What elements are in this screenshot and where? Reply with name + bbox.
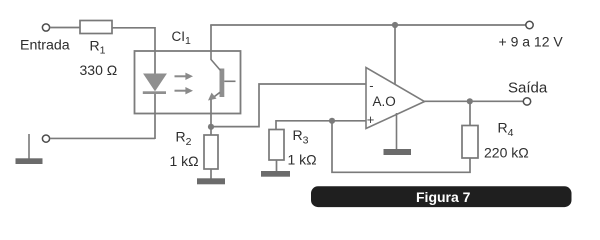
resistor R2 [204,135,218,169]
wire R3 to ground [276,160,278,171]
ground (input side) [16,158,43,164]
op-amp U1 triangle [366,68,425,129]
resistor R4 [462,126,478,159]
wire LED cathode down [154,94,156,139]
light arrow 1 [175,73,194,80]
junction node A (emitter / R2 / inverting input) [208,124,214,130]
resistor R3 [269,130,284,161]
wire R2 to ground [210,169,212,179]
wire input terminal to R1 [50,27,80,29]
terminal: +9 a 12 V [526,21,533,28]
junction node C (output / R4) [467,98,473,104]
terminal: Entrada input [42,24,49,31]
ground (below R2) [197,178,225,184]
LED cathode bar [143,91,166,94]
optocoupler CI1 box [135,51,241,114]
phototransistor emitter lead with arrow [208,92,220,100]
wire node C down to R4 [469,101,471,125]
svg-text:330 Ω: 330 Ω [80,62,118,78]
svg-text:1 kΩ: 1 kΩ [170,153,199,169]
svg-text:220 kΩ: 220 kΩ [484,145,529,161]
wire stem of input ground [28,134,30,159]
svg-text:A.O: A.O [373,94,396,109]
svg-text:+ 9 a 12 V: + 9 a 12 V [499,34,564,50]
wire rail to op-amp V+ pin [394,25,396,85]
svg-text:-: - [369,78,373,93]
wire +V rail [210,24,526,26]
wire op-amp V- pin to ground [396,113,398,150]
wire emitter down to node A [210,100,212,136]
terminal: lower input [42,135,49,142]
ground (op-amp) [384,149,412,155]
ground (below R3) [261,171,290,177]
phototransistor base lead [224,80,235,82]
phototransistor collector lead [211,51,221,71]
terminal: Saida output [523,98,530,105]
Figura 7 caption bar [311,186,572,207]
svg-text:1 kΩ: 1 kΩ [288,152,317,168]
wire non-inverting input [276,121,366,130]
light arrow 2 [175,87,194,94]
wire node A to op-amp inverting input [211,84,366,127]
wire rail down to collector [210,25,212,52]
svg-text:+: + [367,112,375,127]
LED D (emitter diode of CI1) [144,74,166,91]
junction node B (plus input / feedback) [329,118,335,124]
svg-text:Figura 7: Figura 7 [416,189,471,205]
phototransistor Q (of CI1) base bar [220,69,225,98]
svg-text:Entrada: Entrada [20,38,70,54]
wire feedback node B down and to R4 [332,121,470,173]
wire op-amp output to Saida [424,100,524,102]
wire lower terminal to LED cathode [50,137,155,139]
wire R1 to LED anode [112,28,155,74]
resistor R1 [80,21,112,34]
svg-text:Saída: Saída [508,79,548,96]
junction on rail (op-amp supply) [392,22,398,28]
